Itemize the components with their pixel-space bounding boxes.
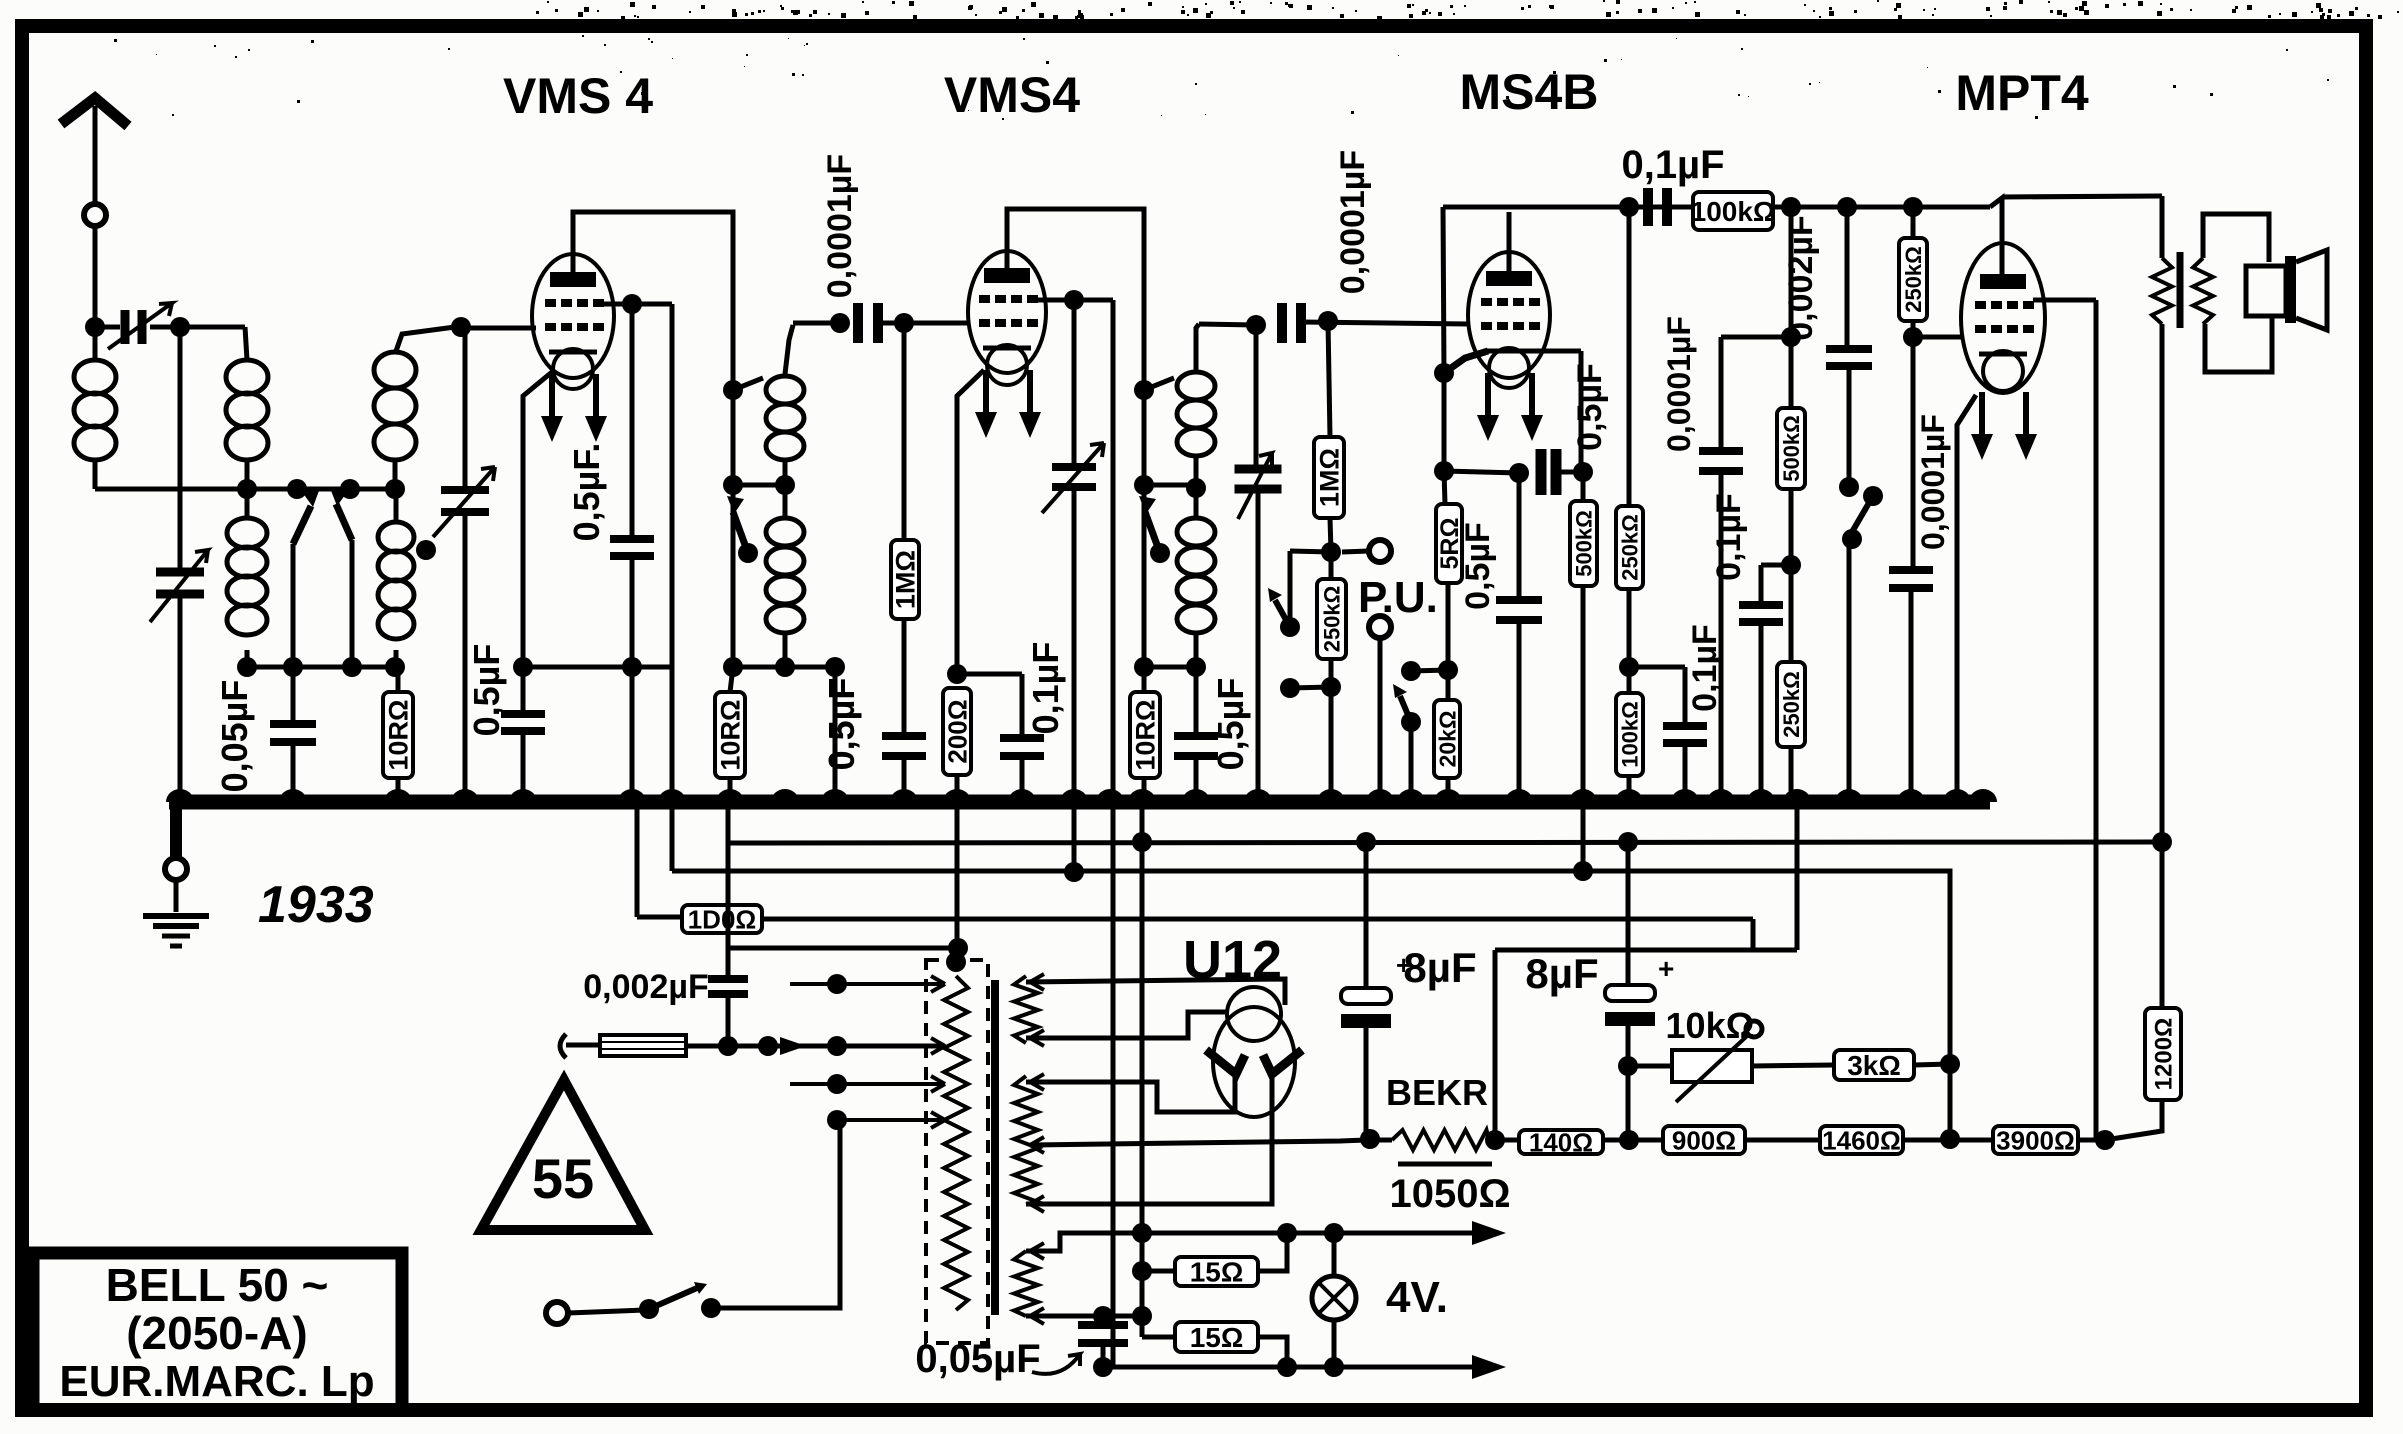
wire V2 aux drop [1111, 300, 1116, 1367]
node C dot [237, 479, 257, 499]
output transformer secondary zigzag [2193, 258, 2213, 324]
switch S6 dot b [701, 1298, 721, 1318]
node AC dot [1618, 1056, 1638, 1076]
switch S4b contact dot [1401, 661, 1421, 681]
wire stage2 mid [731, 390, 736, 485]
svg-text:200Ω: 200Ω [942, 699, 972, 763]
antenna arrow [61, 98, 128, 126]
node AB dot [1619, 1130, 1639, 1150]
wire transformer feed [955, 802, 960, 948]
wire V2 grid1 right [1034, 298, 1113, 303]
wire V3 top cap [1507, 212, 1512, 272]
coil L3 grid [374, 352, 416, 388]
wire V2 top cap [1007, 209, 1144, 390]
svg-text:0,1µF: 0,1µF [1710, 493, 1748, 581]
node Q dot [1781, 197, 1801, 217]
svg-text:20kΩ: 20kΩ [1434, 711, 1460, 768]
node F dot [513, 657, 533, 677]
node U dot [1839, 477, 1859, 497]
switch S4b lever [1401, 712, 1421, 732]
PU terminal 1 ring [1369, 540, 1391, 562]
svg-text:0,0001µF: 0,0001µF [1661, 316, 1697, 452]
resistor R17 1200Ohm [2160, 842, 2165, 1008]
svg-text:EUR.MARC. Lp: EUR.MARC. Lp [59, 1357, 374, 1406]
wire HT bottom to anode [1026, 1012, 1229, 1038]
power transformer primary winding [944, 976, 968, 1310]
bias return drop [1795, 802, 1800, 950]
svg-text:0,1µF: 0,1µF [1025, 642, 1066, 735]
svg-text:1D0Ω: 1D0Ω [688, 904, 757, 934]
capacitor C19 0,1uF [1761, 563, 1791, 568]
wire OT primary bottom drop [2160, 324, 2165, 842]
resistor R19 BEKR 1050Ohm [1370, 1138, 1392, 1143]
scan noise speckles [1695, 12, 1700, 17]
node M2 dot [1321, 677, 1341, 697]
svg-text:0,5µF: 0,5µF [821, 678, 862, 771]
capacitor C10 cathode 0,1uF [957, 370, 984, 674]
wire grid leak drop [670, 304, 675, 871]
coil L5 secondary [766, 518, 804, 546]
capacitor C21 0,0001uF [1911, 337, 1916, 568]
capacitor C17 0,1uF [1629, 665, 1685, 670]
capacitor C20 0,002uF [1845, 207, 1850, 347]
node Z dot [1360, 1129, 1380, 1149]
node G dot [622, 657, 642, 677]
coil L2 primary [226, 360, 268, 394]
tube V3 MS4B envelope [1468, 252, 1550, 378]
switch S6 lever [649, 1288, 697, 1309]
heater rail dots [1132, 1223, 1152, 1243]
resistor R26 15Ohm [1132, 1261, 1152, 1281]
svg-text:0,0001µF: 0,0001µF [1915, 414, 1951, 550]
supply line B4 with resistor R18 100Ohm [635, 802, 640, 917]
node O dot [1573, 462, 1593, 482]
tube V3 cathode arrows [1485, 373, 1491, 421]
svg-text:8µF: 8µF [1525, 950, 1598, 997]
antenna terminal ring [84, 204, 106, 226]
wire S4b contact [1411, 670, 1448, 671]
capacitor C24 8uF [1626, 842, 1631, 985]
wire switch to transformer [711, 1120, 840, 1308]
svg-text:100kΩ: 100kΩ [1617, 701, 1642, 768]
wire R7 to bus [1329, 687, 1334, 802]
resistor R16 250kOhm grid [1911, 207, 1916, 238]
trimmer capacitor C13 [1254, 325, 1259, 467]
trimmer capacitor C4 [463, 327, 468, 488]
wire antenna to node A [93, 226, 98, 327]
speaker voice coil box [2246, 266, 2286, 316]
resistor R27 15Ohm [1132, 1306, 1152, 1326]
svg-text:100kΩ: 100kΩ [1691, 196, 1776, 227]
output transformer core [2177, 252, 2184, 328]
bias line B2 [672, 871, 1950, 1139]
wire V4 cathode [1957, 395, 1976, 802]
primary tap wires [790, 982, 942, 986]
power transformer shield dashed box [926, 960, 988, 1343]
secondary HT winding [1014, 976, 1038, 1043]
coil L7 secondary [1177, 518, 1215, 546]
resistor R14 500kOhm [1777, 408, 1805, 489]
wire V3 anode out [1533, 349, 1581, 354]
node B dot [170, 317, 190, 337]
switch S1a lever [293, 506, 311, 544]
svg-text:250kΩ: 250kΩ [1779, 671, 1804, 738]
stage2 band dots [723, 657, 743, 677]
resistor R1 10kOhm [396, 667, 401, 692]
wire R7 return [1290, 687, 1331, 688]
svg-text:3900Ω: 3900Ω [1996, 1125, 2075, 1155]
capacitor C6 0,5uF [630, 304, 635, 537]
wire V1 grid1 right [600, 302, 672, 307]
band wire dots [237, 657, 257, 677]
svg-text:0,002µF: 0,002µF [1782, 215, 1820, 340]
svg-text:BELL 50 ~: BELL 50 ~ [106, 1259, 329, 1311]
capacitor C12 0,0001uF series [1277, 303, 1287, 343]
node C12a dot [1246, 315, 1266, 335]
capacitor C18 0,0001uF [1789, 207, 1794, 337]
resistor R9 20kOhm [1446, 670, 1451, 700]
svg-text:+: + [1658, 953, 1674, 984]
node S dot [1619, 657, 1639, 677]
resistor R3 1MOhm [902, 323, 907, 540]
node H dot [622, 294, 642, 314]
potentiometer R21 10kOhm [1628, 1064, 1672, 1069]
switch S6 dot a [639, 1299, 659, 1319]
wire switch [568, 1310, 645, 1313]
capacitor C23 8uF [1364, 842, 1369, 988]
wire fuse to taps [686, 1044, 945, 1049]
resistor R2 10kOhm [730, 667, 733, 692]
node V3k2 dot [1434, 461, 1454, 481]
wire V1 top cap [573, 212, 733, 390]
wire L3 to node D [393, 458, 398, 489]
bus left drop wire [170, 802, 182, 858]
switch S2 lever [733, 512, 748, 553]
stage3 band dots [1134, 657, 1154, 677]
speaker frame loop [2203, 214, 2269, 262]
speaker cone [2296, 250, 2327, 330]
capacitor C7 0,0001uF series [830, 313, 850, 333]
secondary heater winding [1014, 1251, 1038, 1316]
svg-text:15Ω: 15Ω [1190, 1322, 1244, 1353]
capacitor C5 0,5uF cathode [523, 372, 552, 712]
switch S1a contact dot [287, 479, 307, 499]
wire V4 grid2 right [2033, 298, 2096, 303]
rectifier U12 anode dome [1227, 987, 1281, 1041]
title box [33, 1253, 402, 1410]
capacitor C25 0,05uF [1026, 1316, 1142, 1337]
antenna lead wire [93, 106, 98, 204]
svg-text:15Ω: 15Ω [1190, 1257, 1244, 1288]
wire S1b to band wire [350, 540, 355, 667]
svg-text:(2050-A): (2050-A) [126, 1307, 308, 1359]
wire S4a to node M [1290, 551, 1331, 552]
svg-text:10RΩ: 10RΩ [716, 699, 746, 770]
trimmer capacitor C9 [1072, 300, 1077, 465]
coil L1 antenna [74, 360, 116, 394]
supply line B1 [728, 842, 2162, 843]
wire winding2 bottom [1026, 1072, 1272, 1204]
wire rectifier output [1032, 1140, 1366, 1145]
node P dot [1619, 197, 1639, 217]
svg-text:10RΩ: 10RΩ [384, 699, 414, 770]
svg-text:1050Ω: 1050Ω [1389, 1172, 1510, 1216]
resistor R11 100kOhm [1693, 192, 1773, 230]
trimmer capacitor C1 series [95, 325, 120, 330]
resistor R12 250kOhm volume [1627, 207, 1632, 506]
coil L4 primary [766, 376, 804, 404]
svg-text:0,002µF: 0,002µF [583, 968, 708, 1006]
node D dot [385, 479, 405, 499]
wire cathode down [1442, 373, 1447, 471]
svg-text:250kΩ: 250kΩ [1901, 246, 1926, 313]
svg-text:10RΩ: 10RΩ [1131, 699, 1161, 770]
resistor R4 200Ohm [943, 688, 971, 775]
node R dot [1837, 197, 1857, 217]
node V dot [2152, 832, 2172, 852]
tube V1 cathode arrows [549, 374, 555, 422]
wire S1a to band wire [291, 544, 296, 667]
resistor R7 250kOhm [1317, 579, 1346, 659]
ground bus bar [169, 795, 1990, 810]
svg-text:250kΩ: 250kΩ [1319, 586, 1344, 653]
svg-text:1460Ω: 1460Ω [1822, 1125, 1901, 1155]
wire cathode node to grid leak [523, 665, 672, 670]
wire L1-L2 bottom [95, 487, 247, 492]
svg-text:MS4B: MS4B [1460, 64, 1599, 120]
svg-text:1MΩ: 1MΩ [891, 550, 921, 609]
svg-text:0,5µF: 0,5µF [466, 644, 507, 737]
resistor R22 3kOhm [1752, 1065, 1834, 1066]
node AA dot [1485, 1130, 1505, 1150]
line B2 dots [1064, 862, 1084, 882]
svg-text:3kΩ: 3kΩ [1847, 1050, 1901, 1081]
svg-text:0,1µF: 0,1µF [1686, 624, 1724, 712]
resistor R13 100kOhm [1616, 693, 1643, 776]
wire heater bottom [1103, 1365, 1490, 1370]
svg-text:0,05µF: 0,05µF [214, 680, 255, 793]
capacitor C3 0,05uF [291, 667, 296, 722]
resistor R25 3900Ohm [1993, 1126, 2078, 1154]
resistor R10 500kOhm [1581, 472, 1586, 501]
svg-text:0,05µF: 0,05µF [915, 1337, 1040, 1381]
svg-text:0,5µF.: 0,5µF. [566, 443, 607, 542]
bus junction bumps [166, 789, 194, 802]
node J dot [1064, 290, 1084, 310]
wire stage2 bypass [833, 667, 838, 802]
plate line top [1443, 205, 1990, 210]
chassis terminal ring [165, 858, 187, 880]
resistor R20 140Ohm [1519, 1130, 1603, 1154]
svg-text:BEKR: BEKR [1386, 1072, 1488, 1113]
secondary winding 2 [1014, 1076, 1038, 1204]
rectifier U12 envelope [1213, 1007, 1295, 1117]
output transformer primary zigzag [2160, 196, 2165, 258]
heater feed drop [1140, 802, 1145, 1233]
tube V2 VMS4 envelope [968, 251, 1046, 373]
capacitor C11 0,5uF [1194, 667, 1199, 734]
variable capacitor C2 tuning [178, 327, 183, 570]
svg-text:140Ω: 140Ω [1529, 1127, 1593, 1157]
wire stage3 mid [1142, 390, 1147, 485]
node W dot [2095, 1130, 2115, 1150]
triangle mark 55 [481, 1080, 645, 1230]
svg-text:0,1µF: 0,1µF [1621, 143, 1724, 187]
V3 cathode curve [1444, 351, 1488, 373]
node K dot [947, 664, 967, 684]
coil tap dot [416, 540, 436, 560]
switch S1b contact dot [340, 479, 360, 499]
primary tap dots [827, 974, 847, 994]
wire L4 top to grid wire [785, 325, 793, 374]
heater bottom dots [1093, 1357, 1113, 1377]
speaker magnet bar [2285, 256, 2296, 323]
power transformer core [991, 980, 999, 1315]
wire mains cap link [728, 946, 958, 951]
tube V4 cathode arrows [1979, 392, 1985, 440]
svg-text:VMS4: VMS4 [944, 67, 1080, 123]
capacitor C16 0,1uF series [1643, 188, 1653, 226]
node Y dot [1940, 1129, 1960, 1149]
svg-text:1933: 1933 [258, 876, 374, 934]
wire C1 to coil L2 [150, 325, 245, 330]
wire stage3 band bottom [1142, 485, 1147, 667]
node N dot [1438, 660, 1458, 680]
node M dot [1321, 542, 1341, 562]
PU terminal 2 ring [1369, 616, 1391, 638]
capacitor C15 0,5uF series [1536, 449, 1547, 495]
resistor R24 1460Ohm [1820, 1126, 1903, 1154]
tube V1 VMS4 envelope [532, 254, 614, 378]
node V3k dot [1434, 363, 1454, 383]
node E dot [451, 317, 471, 337]
svg-text:55: 55 [532, 1147, 594, 1210]
svg-text:500kΩ: 500kΩ [1779, 415, 1804, 482]
wire PU2 to bus [1378, 638, 1383, 802]
svg-text:900Ω: 900Ω [1672, 1125, 1736, 1155]
mains switch terminal ring [546, 1302, 568, 1324]
resistor R8 5kOhm cathode [1444, 471, 1445, 504]
node X dot [1940, 1054, 1960, 1074]
wire V1 grid left [461, 326, 536, 331]
potentiometer wiper ring [1746, 1021, 1762, 1037]
wire band bottom [247, 665, 395, 670]
stage3 mid dots [1134, 475, 1154, 495]
wire heater top [1026, 1233, 1490, 1251]
svg-text:P.U.: P.U. [1358, 573, 1438, 622]
resistor R23 900Ohm [1663, 1126, 1745, 1154]
svg-text:10kΩ: 10kΩ [1666, 1005, 1755, 1046]
tube V2 cathode arrows [983, 370, 989, 418]
line B1 dots [1132, 832, 1152, 852]
svg-text:1200Ω: 1200Ω [2151, 1018, 2178, 1091]
coil L3b wave band [378, 522, 414, 552]
coil L2b wave band [227, 518, 267, 548]
node R16a dot [1903, 197, 1923, 217]
capacitor C14 0,5uF [1444, 471, 1519, 473]
resistor R6 1MOhm [1328, 321, 1330, 437]
svg-text:250kΩ: 250kΩ [1617, 514, 1642, 581]
tube V4 MPT4 envelope [1961, 243, 2045, 393]
node L dot [1134, 380, 1154, 400]
node A dot [85, 317, 105, 337]
svg-text:4V.: 4V. [1386, 1273, 1448, 1322]
node T dot [1781, 555, 1801, 575]
lamp 4V [1332, 1233, 1337, 1277]
svg-text:500kΩ: 500kΩ [1571, 510, 1596, 577]
node I dot [723, 380, 743, 400]
wire heater tap drop [1140, 1233, 1145, 1337]
label 1050 underline [1398, 1162, 1492, 1167]
stage2 mid dots [723, 475, 743, 495]
svg-text:0,5µF: 0,5µF [1459, 522, 1497, 610]
coil L6 primary [1177, 372, 1215, 400]
svg-text:1MΩ: 1MΩ [1315, 448, 1345, 507]
wire plate line to cathode [1443, 207, 1444, 373]
svg-text:0,0001µF: 0,0001µF [821, 154, 859, 298]
wire stage2 band bottom [731, 485, 736, 667]
fuse F1 [566, 1043, 600, 1048]
wire L6 top to grid wire [1196, 324, 1199, 370]
winding lead tips [931, 976, 945, 992]
ground symbol [174, 880, 179, 912]
wire R16 to V4 grid [1913, 335, 1962, 340]
resistor R5 10kOhm [1130, 692, 1160, 778]
wire winding2 top [1026, 1072, 1235, 1112]
capacitor C22 0,002uF [726, 802, 731, 977]
mains input hook [560, 1034, 566, 1058]
svg-text:8µF: 8µF [1403, 944, 1476, 991]
svg-text:VMS 4: VMS 4 [503, 68, 653, 124]
switch S3 lever [1145, 512, 1160, 553]
switch S5 lever [1863, 486, 1883, 506]
svg-text:MPT4: MPT4 [1955, 65, 2089, 121]
capacitor C8 0,5uF [882, 732, 926, 740]
svg-text:0,5µF: 0,5µF [1571, 363, 1609, 451]
svg-text:0,0001µF: 0,0001µF [1334, 150, 1372, 294]
wire node C to node D [247, 487, 395, 492]
resistor R15 250kOhm [1777, 662, 1805, 747]
wire HT top to anode [1026, 979, 1285, 1005]
switch S4a lever [1288, 551, 1293, 627]
svg-text:0,5µF: 0,5µF [1210, 678, 1251, 771]
switch S1b lever [336, 504, 352, 540]
rectifier filament hooks [1206, 1050, 1245, 1074]
wire V4 grid2 drop [2094, 300, 2099, 1138]
